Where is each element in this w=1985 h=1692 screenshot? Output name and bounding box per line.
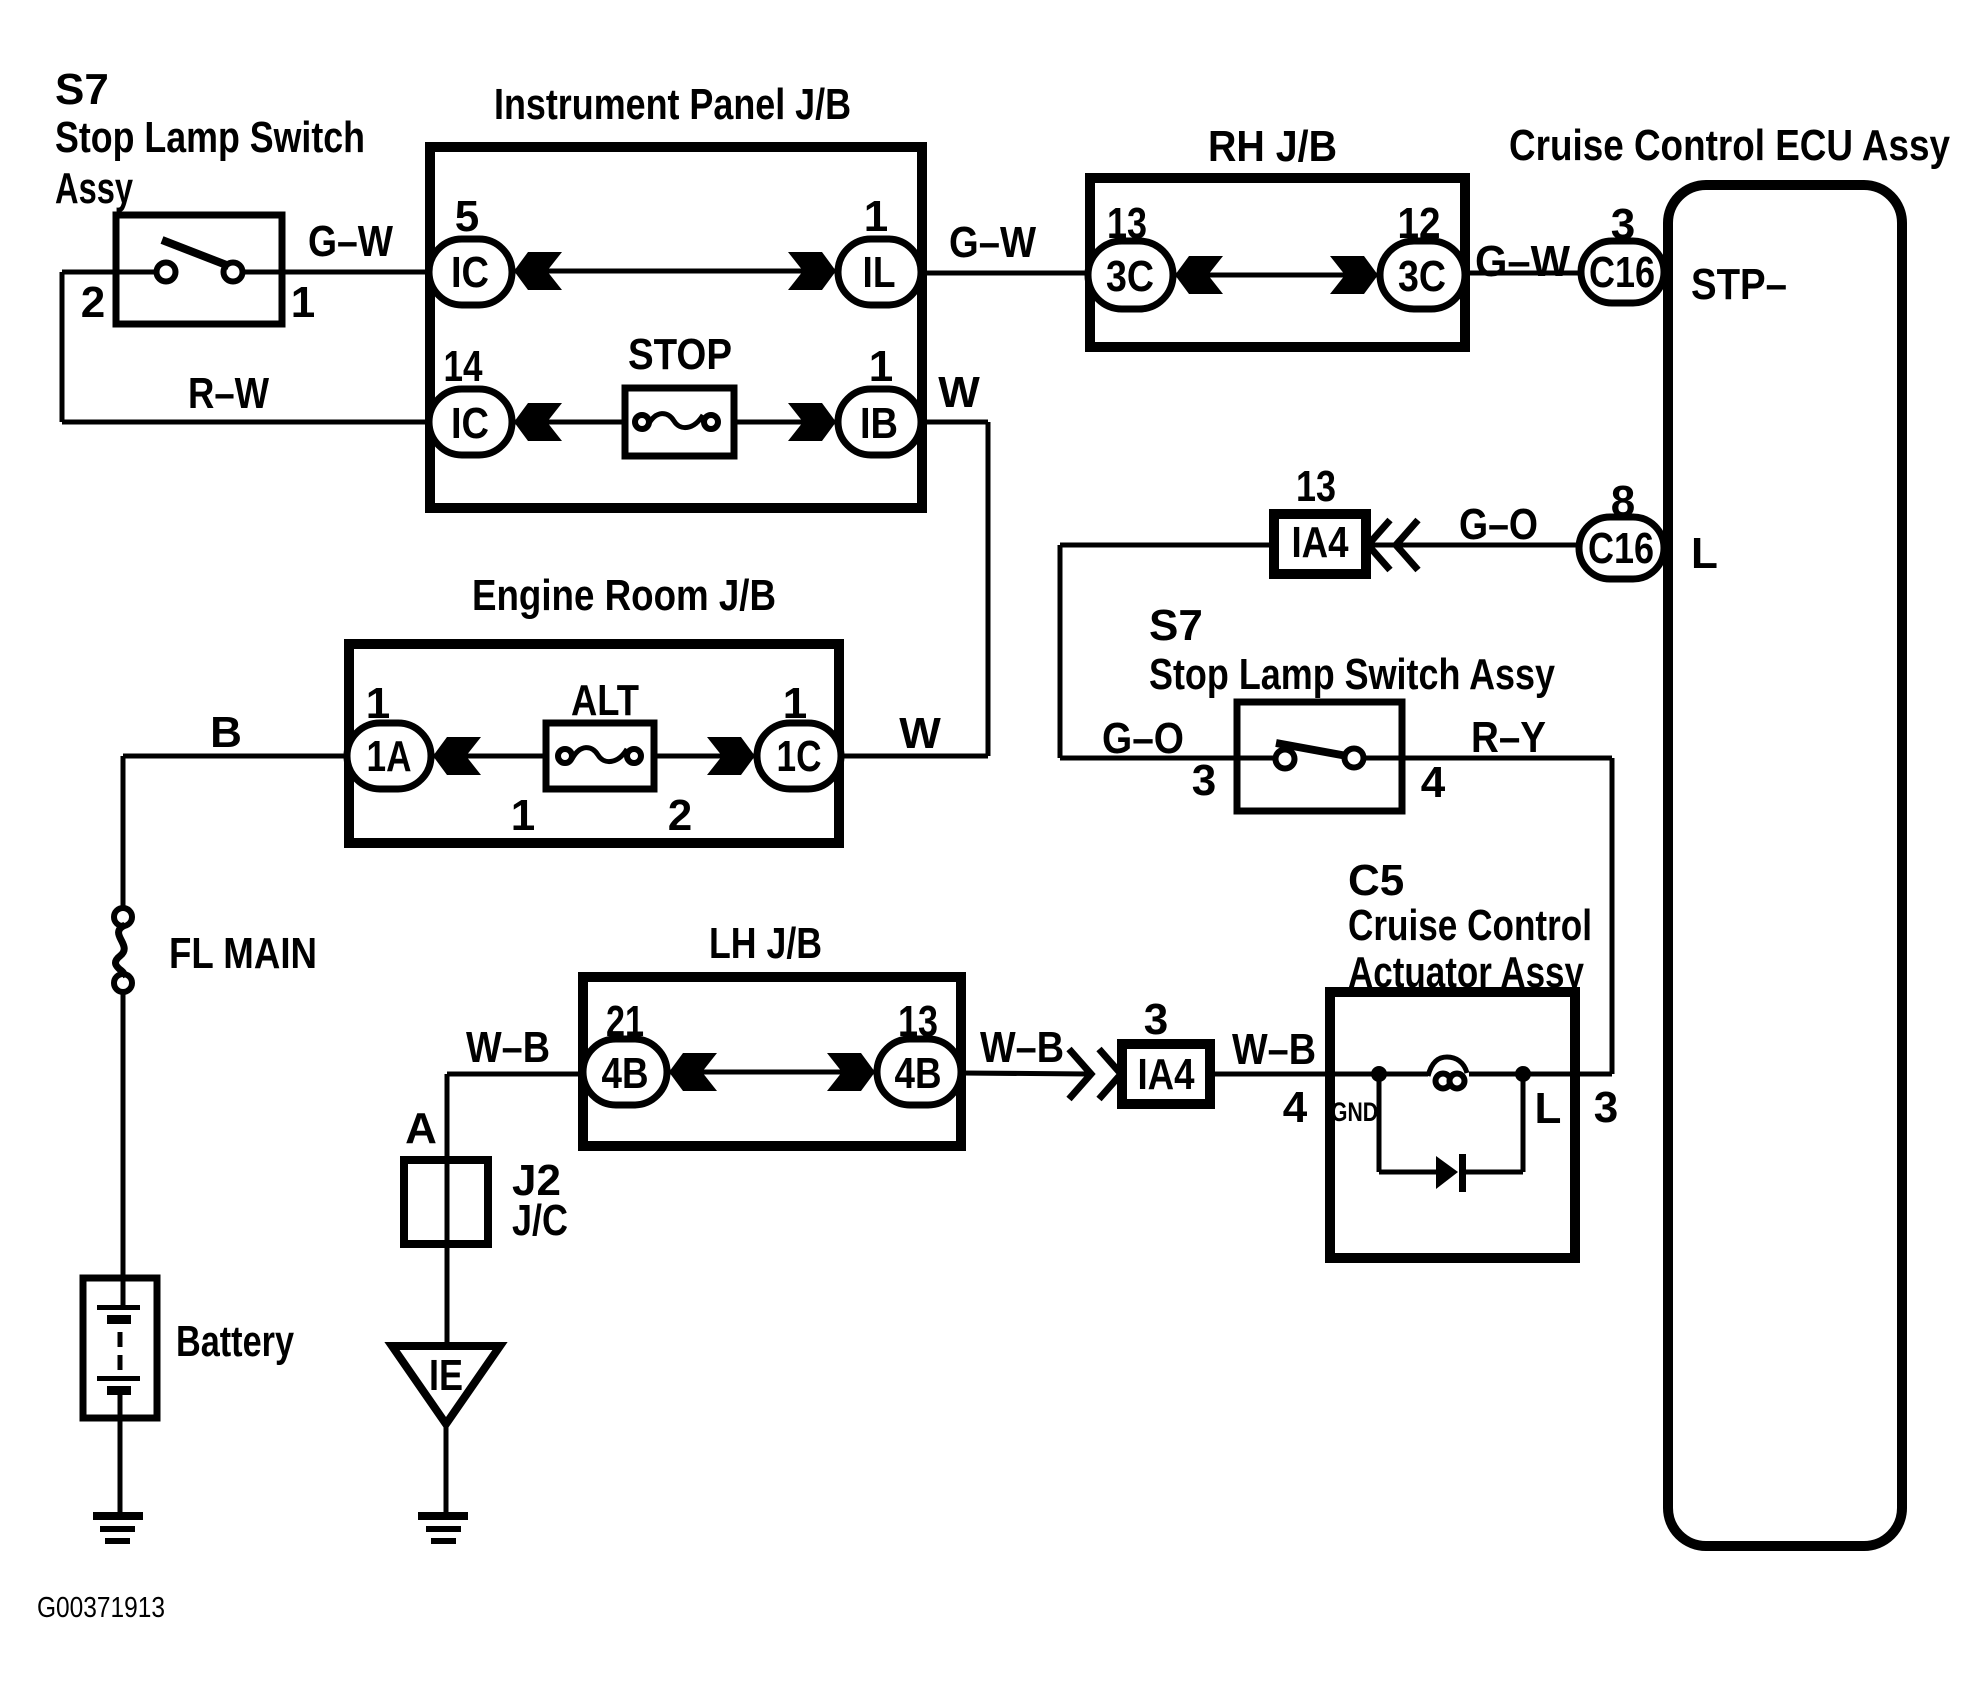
- svg-text:L: L: [1691, 529, 1718, 578]
- svg-text:Assy: Assy: [55, 164, 133, 213]
- svg-text:4B: 4B: [895, 1049, 942, 1098]
- svg-text:4B: 4B: [602, 1049, 649, 1098]
- svg-text:B: B: [210, 708, 242, 757]
- svg-text:12: 12: [1398, 199, 1441, 248]
- svg-text:13: 13: [1296, 462, 1336, 511]
- svg-text:RH J/B: RH J/B: [1208, 122, 1337, 171]
- svg-text:1: 1: [869, 342, 893, 391]
- svg-text:4: 4: [1283, 1083, 1308, 1132]
- svg-text:G–W: G–W: [308, 217, 393, 266]
- svg-text:13: 13: [898, 997, 938, 1046]
- svg-text:3: 3: [1611, 200, 1635, 249]
- svg-text:IC: IC: [451, 399, 489, 448]
- svg-text:L: L: [1535, 1084, 1562, 1133]
- svg-text:1: 1: [864, 192, 888, 241]
- svg-text:2: 2: [668, 791, 692, 840]
- svg-text:1C: 1C: [777, 732, 822, 781]
- svg-text:C16: C16: [1589, 248, 1655, 297]
- svg-text:Stop Lamp Switch: Stop Lamp Switch: [55, 113, 365, 162]
- svg-text:3: 3: [1594, 1083, 1618, 1132]
- svg-text:1: 1: [783, 679, 807, 728]
- svg-text:C5: C5: [1348, 856, 1404, 905]
- svg-text:G00371913: G00371913: [37, 1592, 165, 1624]
- svg-text:14: 14: [444, 342, 483, 391]
- svg-text:G–W: G–W: [1475, 237, 1570, 286]
- svg-text:IE: IE: [429, 1351, 463, 1400]
- svg-text:1A: 1A: [367, 732, 412, 781]
- svg-text:C16: C16: [1588, 524, 1654, 573]
- svg-text:W: W: [938, 368, 980, 417]
- svg-text:LH J/B: LH J/B: [709, 919, 822, 968]
- svg-text:G–W: G–W: [949, 218, 1036, 267]
- svg-text:STP–: STP–: [1691, 260, 1787, 309]
- svg-text:STOP: STOP: [628, 330, 732, 379]
- svg-text:S7: S7: [55, 65, 109, 114]
- svg-text:3C: 3C: [1398, 252, 1446, 301]
- svg-text:13: 13: [1107, 199, 1147, 248]
- svg-text:ALT: ALT: [571, 676, 639, 725]
- svg-text:3C: 3C: [1106, 252, 1154, 301]
- svg-text:5: 5: [455, 192, 479, 241]
- svg-text:Actuator Assy: Actuator Assy: [1348, 948, 1584, 997]
- svg-text:W–B: W–B: [466, 1023, 550, 1072]
- svg-text:Stop Lamp Switch Assy: Stop Lamp Switch Assy: [1149, 650, 1555, 699]
- svg-text:R–Y: R–Y: [1471, 713, 1546, 762]
- svg-text:3: 3: [1144, 995, 1168, 1044]
- svg-text:IA4: IA4: [1292, 518, 1349, 567]
- svg-text:G–O: G–O: [1459, 500, 1538, 549]
- svg-text:S7: S7: [1149, 601, 1203, 650]
- svg-text:2: 2: [81, 278, 105, 327]
- svg-text:1: 1: [366, 679, 390, 728]
- svg-text:3: 3: [1192, 756, 1216, 805]
- svg-text:A: A: [405, 1104, 437, 1153]
- svg-text:1: 1: [291, 278, 315, 327]
- svg-text:4: 4: [1421, 758, 1446, 807]
- svg-text:21: 21: [606, 997, 644, 1046]
- svg-text:Instrument Panel J/B: Instrument Panel J/B: [494, 80, 851, 129]
- svg-text:IB: IB: [860, 399, 898, 448]
- svg-text:GND: GND: [1331, 1097, 1378, 1127]
- svg-text:FL MAIN: FL MAIN: [169, 929, 317, 978]
- svg-text:J/C: J/C: [512, 1196, 568, 1245]
- svg-text:8: 8: [1611, 477, 1635, 526]
- svg-text:IL: IL: [863, 248, 896, 297]
- svg-text:R–W: R–W: [188, 369, 269, 418]
- svg-text:Cruise Control ECU Assy: Cruise Control ECU Assy: [1509, 121, 1950, 170]
- svg-text:Cruise Control: Cruise Control: [1348, 901, 1592, 950]
- svg-text:Engine Room J/B: Engine Room J/B: [472, 571, 776, 620]
- svg-text:Battery: Battery: [176, 1317, 294, 1366]
- svg-text:G–O: G–O: [1102, 714, 1184, 763]
- svg-text:W–B: W–B: [1232, 1025, 1316, 1074]
- svg-text:IA4: IA4: [1138, 1050, 1195, 1099]
- svg-text:W: W: [899, 709, 941, 758]
- svg-text:IC: IC: [451, 248, 489, 297]
- svg-text:1: 1: [511, 791, 535, 840]
- svg-text:W–B: W–B: [980, 1023, 1064, 1072]
